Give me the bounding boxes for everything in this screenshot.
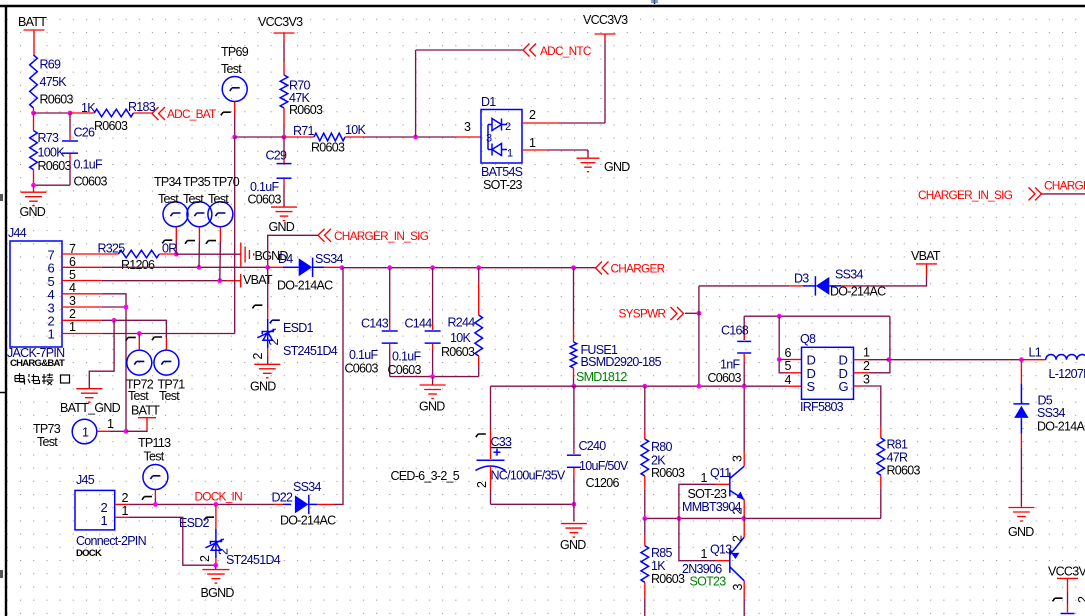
node TP70 junction <box>217 278 222 283</box>
svg-text:GND: GND <box>560 538 586 552</box>
node output junction <box>887 357 892 362</box>
pin 4 lead J44 <box>62 293 102 295</box>
svg-text:3: 3 <box>863 373 870 387</box>
pin 4 lead Q8 <box>788 385 802 387</box>
svg-text:R85: R85 <box>651 546 673 560</box>
sheet border left <box>5 6 7 616</box>
pin 1 lead Q8 <box>854 359 868 361</box>
svg-text:TP34: TP34 <box>154 175 182 189</box>
pin 1 label TP35 <box>185 241 195 244</box>
mosfet Q8 <box>802 347 854 399</box>
svg-text:GND: GND <box>419 400 445 414</box>
ground GND at D5 <box>1008 507 1034 509</box>
power port VBAT left <box>240 274 242 288</box>
wire Q11 emitter <box>743 500 745 515</box>
wire cap bottom row <box>390 376 479 378</box>
wire TP113 pin <box>154 490 156 498</box>
node SYSPWR junction <box>697 311 702 316</box>
svg-text:C29: C29 <box>266 149 288 163</box>
node FUSE1 bottom junction <box>572 384 577 389</box>
ground GND at D1 <box>577 157 600 159</box>
wire TP73 pin <box>97 430 110 432</box>
svg-text:1: 1 <box>507 148 513 160</box>
wire to BGND <box>176 253 241 255</box>
node FUSE1 junction <box>571 265 576 270</box>
resistor R73 <box>33 113 35 131</box>
svg-text:C0603: C0603 <box>388 363 422 377</box>
svg-text:1: 1 <box>701 547 708 561</box>
svg-text:R325: R325 <box>98 242 126 256</box>
testpoint TP71 <box>154 350 179 375</box>
svg-text:2: 2 <box>863 359 870 373</box>
svg-text:3: 3 <box>731 455 745 462</box>
svg-text:ESD2: ESD2 <box>179 516 210 530</box>
port ADC_NTC <box>523 44 530 57</box>
svg-text:R80: R80 <box>651 440 673 454</box>
svg-text:DO-214AC: DO-214AC <box>280 514 336 528</box>
diode D4 <box>268 266 283 268</box>
wire J45 pin1 to BGND <box>129 517 216 565</box>
svg-text:R0603: R0603 <box>38 159 72 173</box>
port CHARGER_IN_SIG <box>318 229 325 242</box>
wire D22 to charger node <box>334 268 343 505</box>
node pin3-pin4 junction <box>124 305 129 310</box>
svg-text:SOT23: SOT23 <box>690 575 727 589</box>
svg-text:2: 2 <box>251 353 265 360</box>
svg-text:Q8: Q8 <box>800 332 816 346</box>
node BATT junction <box>124 429 129 434</box>
svg-text:TP35: TP35 <box>183 175 211 189</box>
svg-text:C33: C33 <box>491 435 513 449</box>
testpoint TP113 <box>143 465 168 490</box>
node Q11 collector junction <box>742 384 747 389</box>
svg-text:L-1207B: L-1207B <box>1049 367 1085 381</box>
svg-text:SMD1812: SMD1812 <box>576 370 627 384</box>
esd diode ESD1 <box>267 267 269 309</box>
wire pin2 row <box>102 320 167 338</box>
power port BATT_GND <box>76 388 102 390</box>
svg-text:ST2451D4: ST2451D4 <box>226 553 281 567</box>
svg-text:R71: R71 <box>293 124 315 138</box>
diode D22 <box>275 503 283 505</box>
svg-text:7: 7 <box>69 242 76 256</box>
svg-text:C240: C240 <box>579 439 607 453</box>
pin 5 lead J44 <box>62 280 102 282</box>
pin 6 lead Q8 <box>779 359 789 361</box>
pin 1 label bottom right <box>1053 598 1063 601</box>
wire dockin row <box>129 503 275 505</box>
wire pin2 to BATT_GND <box>89 320 114 388</box>
wire BATT sense riser <box>234 137 236 334</box>
svg-text:VBAT: VBAT <box>243 273 273 287</box>
wire Q11 collector <box>743 451 745 466</box>
node R325-TP34 junction <box>174 252 179 257</box>
wire TP35 pin <box>198 227 200 241</box>
wire base row <box>645 517 881 519</box>
wire TP34 pin <box>175 227 177 241</box>
capacitor C144 <box>432 268 434 324</box>
svg-text:Connect-2PIN: Connect-2PIN <box>76 534 147 548</box>
capacitor C240 <box>573 386 575 449</box>
capacitor C168 <box>743 316 745 340</box>
pin 1 lead J44 <box>62 333 102 335</box>
sheet zone glyph left b <box>0 570 3 578</box>
wire charger row <box>342 267 574 269</box>
svg-text:R69: R69 <box>40 58 62 72</box>
node R80 bottom junction <box>642 516 647 521</box>
svg-text:4: 4 <box>785 373 792 387</box>
svg-text:R0603: R0603 <box>311 141 345 155</box>
svg-text:Test: Test <box>128 389 149 403</box>
node R80 junction <box>642 384 647 389</box>
svg-text:1K: 1K <box>651 559 666 573</box>
svg-text:Test: Test <box>37 435 58 449</box>
svg-text:D3: D3 <box>794 272 809 286</box>
ground GND left <box>33 185 35 192</box>
pin 1 label TP69 <box>221 112 231 115</box>
capacitor C143 <box>389 268 391 324</box>
svg-text:6: 6 <box>69 255 76 269</box>
pin 1 lead J45 <box>115 516 129 518</box>
pin 7 lead J44 <box>62 253 102 255</box>
svg-text:R0603: R0603 <box>40 93 74 107</box>
svg-text:C0603: C0603 <box>248 193 282 207</box>
power port VBAT right <box>916 263 937 265</box>
svg-text:J44: J44 <box>8 226 27 240</box>
port ADC_BAT <box>152 107 159 120</box>
svg-text:TP73: TP73 <box>33 422 61 436</box>
svg-text:2: 2 <box>529 108 536 122</box>
svg-text:Test: Test <box>221 62 242 76</box>
pin 1 label TP113 <box>142 497 152 500</box>
svg-text:100K: 100K <box>38 146 66 160</box>
svg-text:CED-6_3-2_5: CED-6_3-2_5 <box>391 469 460 483</box>
svg-text:R0603: R0603 <box>887 464 921 478</box>
svg-text:GND: GND <box>269 220 295 234</box>
node gate loop junction <box>777 314 782 319</box>
capacitor C29 <box>283 137 285 156</box>
svg-text:1: 1 <box>701 471 708 485</box>
node C168 row junction <box>742 384 747 389</box>
svg-text:G: G <box>839 379 849 394</box>
svg-text:S: S <box>807 379 816 394</box>
testpoint TP72 <box>127 350 152 375</box>
wire Q13 emitter <box>743 522 745 537</box>
testpoint TP73 <box>72 419 97 444</box>
svg-text:R0603: R0603 <box>289 103 323 117</box>
svg-text:0.1uF: 0.1uF <box>349 348 378 362</box>
svg-text:DOCK_IN: DOCK_IN <box>195 490 243 504</box>
svg-text:ESD1: ESD1 <box>283 321 314 335</box>
svg-text:1nF: 1nF <box>720 358 740 372</box>
capacitor C33 <box>490 386 492 430</box>
pin 1 label TP70 <box>206 241 216 244</box>
resistor R81 <box>860 386 881 427</box>
svg-text:TP113: TP113 <box>138 436 171 450</box>
port CHARGER <box>574 267 596 269</box>
svg-text:CHARGER_IN_SIG: CHARGER_IN_SIG <box>334 229 429 243</box>
wire C26 bottom to GND node <box>34 184 71 186</box>
pin 2 lead D1 <box>522 122 559 124</box>
testpoint TP70 <box>208 202 233 227</box>
svg-text:C26: C26 <box>74 126 96 140</box>
svg-text:0.1uF: 0.1uF <box>392 350 421 364</box>
port CHARGER right edge <box>1035 187 1042 200</box>
pin 3 lead Q8 <box>854 385 861 387</box>
svg-text:SS34: SS34 <box>1037 406 1065 420</box>
wire TP70 pin <box>219 227 221 241</box>
wire C33 bottom row <box>491 503 574 505</box>
node C144 junction <box>430 265 435 270</box>
svg-text:6: 6 <box>785 346 792 360</box>
wire ADC_NTC riser <box>415 50 417 137</box>
svg-text:C168: C168 <box>721 324 749 338</box>
svg-text:SS34: SS34 <box>315 252 343 266</box>
wire ADC_BAT row <box>235 136 284 138</box>
wire D3 to VBAT <box>853 276 927 286</box>
svg-text:475K: 475K <box>40 75 68 89</box>
node GND row junction <box>430 374 435 379</box>
ground BGND bottom <box>215 565 217 569</box>
svg-text:3: 3 <box>464 120 471 134</box>
wire node to C26 <box>34 112 71 114</box>
svg-text:C143: C143 <box>361 317 389 331</box>
wire D3 row <box>699 285 790 287</box>
svg-text:IRF5803: IRF5803 <box>800 400 844 414</box>
pin 6 lead J44 <box>62 266 102 268</box>
svg-text:2: 2 <box>731 535 745 542</box>
power port BGND <box>240 243 242 267</box>
svg-text:2: 2 <box>122 491 129 505</box>
svg-text:Q13: Q13 <box>710 543 732 557</box>
wire D5 to GND <box>1020 448 1022 507</box>
wire VCC3V3 to R70 <box>283 41 285 62</box>
svg-text:VCC3V3: VCC3V3 <box>583 13 628 27</box>
svg-text:1: 1 <box>863 346 870 360</box>
svg-text:GND: GND <box>1008 525 1034 539</box>
svg-text:DOCK: DOCK <box>76 548 102 559</box>
wire VCC3V3 bottom stub <box>1067 592 1069 604</box>
svg-text:4: 4 <box>69 281 76 295</box>
svg-text:10uF/50V: 10uF/50V <box>579 459 629 473</box>
node BGND junction <box>213 563 218 568</box>
ground GND under C240 <box>573 504 575 521</box>
pin 2 lead Q8 <box>854 372 869 374</box>
wire R71 to D1 <box>363 136 455 138</box>
node R70 junction <box>282 135 287 140</box>
node L1 junction <box>1019 357 1024 362</box>
svg-text:ST2451D4: ST2451D4 <box>283 344 338 358</box>
wire pin1 row <box>102 333 235 335</box>
svg-text:NC/100uF/35V: NC/100uF/35V <box>491 469 566 483</box>
wire syspwr row <box>491 385 788 387</box>
svg-text:5: 5 <box>69 268 76 282</box>
svg-text:D1: D1 <box>481 95 496 109</box>
svg-text:1: 1 <box>69 320 76 334</box>
wire R70 to node <box>283 108 285 125</box>
node C240 bottom junction <box>572 502 577 507</box>
wire C168 top <box>744 315 890 317</box>
svg-text:1: 1 <box>107 417 114 431</box>
pin 1 label TP72 <box>126 337 136 340</box>
svg-text:C1206: C1206 <box>586 476 620 490</box>
resistor R69 <box>30 55 38 108</box>
svg-text:R0603: R0603 <box>651 572 685 586</box>
svg-text:1: 1 <box>529 136 536 150</box>
svg-text:TP69: TP69 <box>221 45 249 59</box>
resistor R325 <box>102 253 119 255</box>
wire q8 left riser <box>779 316 788 373</box>
svg-text:ADC_BAT: ADC_BAT <box>167 107 216 121</box>
svg-text:GND: GND <box>20 205 46 219</box>
svg-text:R0603: R0603 <box>94 119 128 133</box>
svg-text:2: 2 <box>475 481 489 488</box>
svg-text:C0603: C0603 <box>345 362 379 376</box>
svg-text:SYSPWR: SYSPWR <box>619 307 666 321</box>
svg-text:GND: GND <box>604 160 630 174</box>
svg-text:10K: 10K <box>345 123 366 137</box>
wire syspwr riser <box>698 286 700 386</box>
svg-text:R81: R81 <box>887 438 909 452</box>
pin 1 label TP71 <box>152 337 162 340</box>
svg-text:L1: L1 <box>1029 346 1042 360</box>
testpoint TP34 <box>163 202 188 227</box>
resistor R71 <box>284 136 314 138</box>
schottky pair D1 <box>481 110 522 164</box>
sheet border top <box>0 5 1085 7</box>
svg-text:2: 2 <box>1076 596 1085 603</box>
wire pin3 row <box>102 306 126 308</box>
wire output row <box>867 359 1021 361</box>
svg-text:2: 2 <box>198 555 212 562</box>
wire Q13 collector <box>743 581 745 599</box>
wire R69 to node <box>33 108 35 113</box>
node TP35 junction <box>197 265 202 270</box>
svg-text:SOT-23: SOT-23 <box>688 487 728 501</box>
svg-text:SS34: SS34 <box>293 480 321 494</box>
node TP72 junction <box>137 331 142 336</box>
svg-text:Test: Test <box>183 192 204 206</box>
resistor R244 <box>478 268 480 281</box>
transistor Q13 <box>679 518 716 560</box>
wire CHARGER_IN_SIG tail <box>268 235 318 267</box>
diode D5 <box>1020 360 1022 384</box>
svg-text:DO-214AC: DO-214AC <box>277 279 333 293</box>
svg-text:CHARGE: CHARGE <box>1044 179 1085 193</box>
ground GND at C29 <box>271 206 297 208</box>
sheet zone tick left <box>0 392 6 394</box>
svg-text:Test: Test <box>159 389 180 403</box>
ground GND under C144 <box>432 377 434 385</box>
svg-text:Test: Test <box>144 450 165 464</box>
svg-text:SOT-23: SOT-23 <box>483 178 523 192</box>
svg-text:VBAT: VBAT <box>911 249 941 263</box>
wire VCC3V3 to D1 pin2 <box>604 41 606 123</box>
diode D3 <box>803 285 816 287</box>
component top cut bottom right <box>1061 613 1075 615</box>
svg-text:0.1uF: 0.1uF <box>74 158 103 172</box>
fuse FUSE1 <box>573 268 575 330</box>
node D4 cathode junction <box>340 265 345 270</box>
svg-text:10K: 10K <box>450 331 471 345</box>
svg-text:3: 3 <box>731 584 745 591</box>
svg-text:CHARGER: CHARGER <box>611 262 665 276</box>
svg-text:D22: D22 <box>272 491 294 505</box>
svg-text:1: 1 <box>100 513 107 528</box>
svg-text:Q11: Q11 <box>710 466 731 480</box>
esd diode ESD2 <box>215 504 217 528</box>
svg-text:TP70: TP70 <box>212 175 240 189</box>
wire pin4 down <box>102 294 126 432</box>
svg-text:47R: 47R <box>887 451 908 465</box>
wire pin2 loop <box>869 316 890 373</box>
svg-text:BSMD2920-185: BSMD2920-185 <box>581 355 662 369</box>
svg-text:BAT54S: BAT54S <box>481 165 523 179</box>
node ESD2 junction <box>214 502 219 507</box>
wire BATT stub <box>126 430 147 432</box>
wire pin5 row <box>102 280 227 282</box>
svg-text:R73: R73 <box>38 131 60 145</box>
svg-text:BGND: BGND <box>201 586 235 600</box>
svg-text:VCC3V3: VCC3V3 <box>1048 564 1085 578</box>
transistor Q11 <box>679 484 716 518</box>
svg-text:CHARGER_IN_SIG: CHARGER_IN_SIG <box>918 188 1013 202</box>
testpoint TP35 <box>187 202 212 227</box>
node ADC_NTC junction <box>413 135 418 140</box>
node syspwr row junction <box>697 384 702 389</box>
node BATT-R69-R73 junction <box>31 111 36 116</box>
wire D1 pin3 lead <box>455 136 481 138</box>
svg-text:GND: GND <box>250 380 276 394</box>
inductor L1 <box>1021 359 1024 361</box>
svg-text:2: 2 <box>69 307 76 321</box>
svg-text:ADC_NTC: ADC_NTC <box>540 44 592 58</box>
wire BATT to R69 <box>33 38 35 55</box>
svg-text:C0603: C0603 <box>708 371 742 385</box>
svg-text:Test: Test <box>208 192 229 206</box>
resistor R183 <box>70 112 94 114</box>
svg-text:R1206: R1206 <box>121 258 155 272</box>
wire pin6 row <box>102 266 268 268</box>
node D4 junction <box>265 265 270 270</box>
node C26 top junction <box>68 111 73 116</box>
resistor R85 <box>644 518 646 535</box>
svg-text:R0603: R0603 <box>441 345 475 359</box>
svg-text:C0603: C0603 <box>74 175 108 189</box>
svg-text:D4: D4 <box>278 252 293 266</box>
svg-text:3: 3 <box>69 294 76 308</box>
svg-text:Test: Test <box>158 192 179 206</box>
svg-text:2: 2 <box>267 339 281 346</box>
capacitor C26 <box>69 113 71 133</box>
svg-text:C144: C144 <box>405 317 433 331</box>
svg-text:J45: J45 <box>76 473 95 487</box>
node GND junction left <box>31 183 36 188</box>
ground GND at ESD1 <box>254 363 280 365</box>
node q8 pin6 junction <box>777 357 782 362</box>
pin 2 lead J44 <box>62 319 102 321</box>
svg-text:R0603: R0603 <box>651 466 685 480</box>
wire TP72 pin <box>138 334 140 339</box>
node pin2 junction <box>112 318 117 323</box>
testpoint TP69 <box>222 77 247 102</box>
svg-text:2: 2 <box>505 121 511 133</box>
svg-text:DO-214AC: DO-214AC <box>1037 420 1085 434</box>
svg-text:CHARG&BAT: CHARG&BAT <box>10 358 65 369</box>
svg-text:MMBT3904: MMBT3904 <box>682 500 742 514</box>
pin 1 label TP34 <box>162 240 172 243</box>
svg-text:BATT_GND: BATT_GND <box>60 401 121 415</box>
